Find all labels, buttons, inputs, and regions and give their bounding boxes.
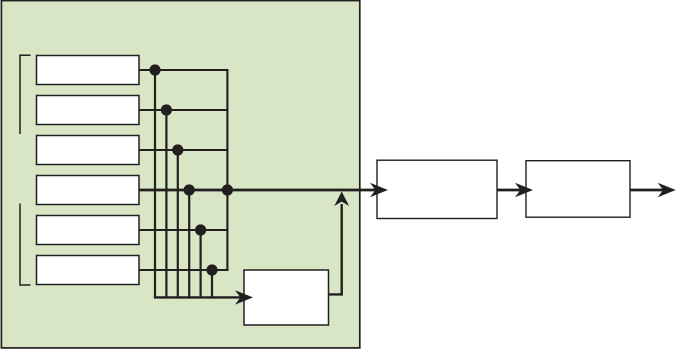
wire vertical drop 1 [154,70,156,299]
green panel [1,1,359,348]
wire box A to box B [497,189,521,192]
input box 2 [37,96,140,125]
wire final output [630,189,663,192]
box A [377,160,497,218]
wire vertical drop 4 [188,190,190,297]
arrowhead up into main line [334,192,349,207]
junction dot row1 [149,64,160,75]
junction dot row3 [172,144,183,155]
input box 5 [37,216,140,245]
arrowhead final output [658,183,676,197]
bracket group 2 (boxes 5-6) [20,204,31,286]
wire vertical drop 2 [165,110,167,297]
junction dot row4 [184,184,195,195]
arrowhead into bottom box [235,290,253,304]
wire row1 horizontal [139,69,228,71]
wire vertical drop 3 [177,150,179,297]
wire main output row4 [139,189,376,192]
wire row5 horizontal [139,229,228,231]
box B [526,161,630,218]
input box 1 [37,56,140,85]
wire row6 horizontal [139,269,228,271]
wire vertical drop 6 [211,270,213,297]
junction dot row6 [206,264,217,275]
arrowhead into box B [515,183,533,197]
junction dot row5 [195,224,206,235]
wire right bus vertical [226,69,228,271]
wire feedback up [329,204,342,294]
wire bottom bus to arrow [154,296,241,298]
input box 3 [37,136,140,165]
junction dot bus-row4 [222,184,233,195]
bracket group 1 (boxes 1-2) [20,55,31,134]
input box 4 [37,176,140,205]
wire row3 horizontal [139,149,228,151]
arrowhead into box A [370,183,388,197]
bottom feedback box [244,270,329,325]
wire row2 horizontal [139,109,228,111]
wire vertical drop 5 [200,230,202,297]
input box 6 [37,256,140,285]
junction dot row2 [161,104,172,115]
